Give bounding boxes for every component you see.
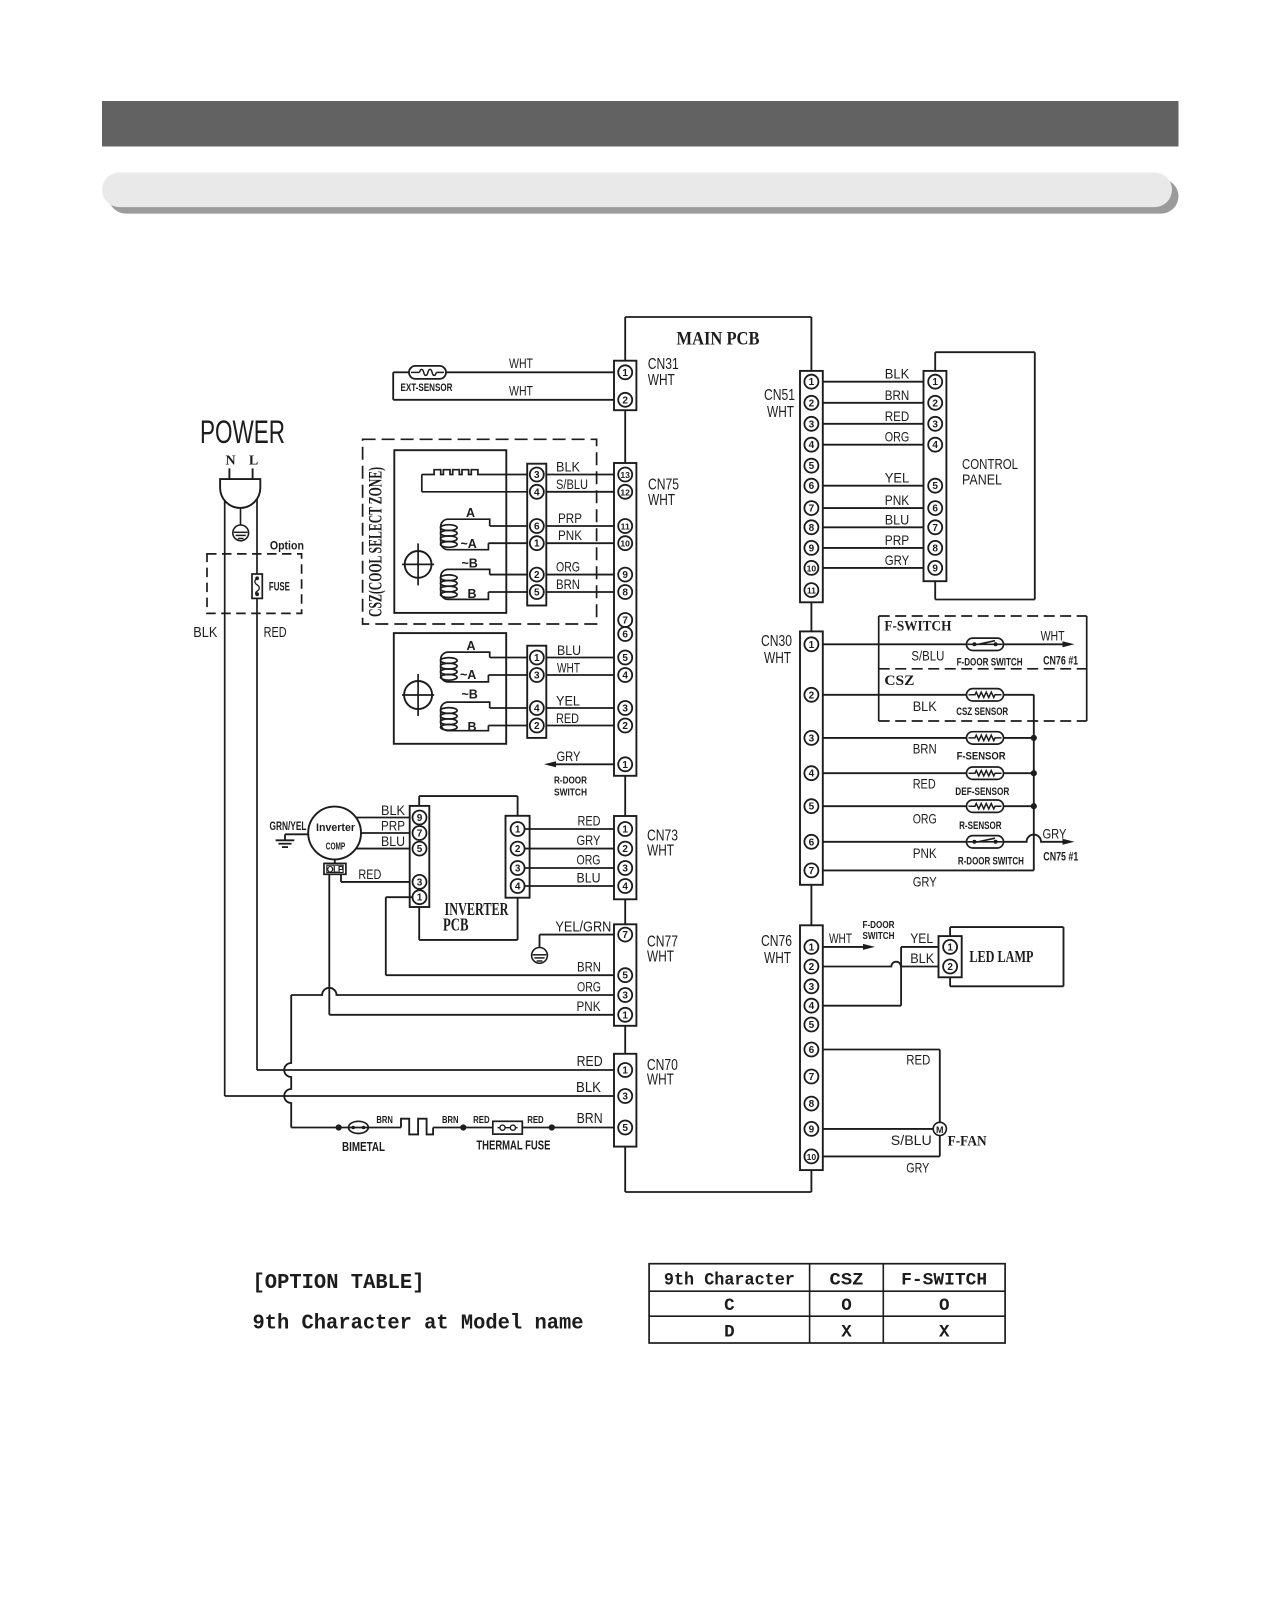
svg-text:A: A <box>466 506 475 520</box>
heater CSZ comb element <box>422 470 537 492</box>
svg-text:YEL: YEL <box>556 692 580 708</box>
svg-text:GRY: GRY <box>906 1160 929 1176</box>
motor winding A CSZ <box>441 519 490 550</box>
label R-DOOR SWITCH sensor <box>958 856 1024 868</box>
switch R-DOOR SWITCH <box>967 836 1004 848</box>
svg-text:S/BLU: S/BLU <box>556 476 588 492</box>
wire RED B to CN75-2 <box>488 725 618 727</box>
svg-text:1: 1 <box>534 539 540 550</box>
wire OLP RED to pin3 <box>341 874 413 882</box>
svg-text:BLK: BLK <box>885 366 910 382</box>
svg-text:7: 7 <box>809 866 815 877</box>
svg-text:9th Character at Model name: 9th Character at Model name <box>253 1312 584 1336</box>
label CN76 WHT <box>761 933 792 967</box>
svg-text:2: 2 <box>622 844 628 855</box>
wire plug ground stem <box>240 508 242 525</box>
connector CN31 <box>614 361 636 411</box>
svg-text:1: 1 <box>809 377 815 388</box>
wire EXT-SENSOR left lead <box>393 372 409 400</box>
svg-text:DEF-SENSOR: DEF-SENSOR <box>955 786 1009 798</box>
svg-text:PNK: PNK <box>913 845 938 861</box>
label CSZ(COOL SELECT ZONE) <box>366 467 387 617</box>
header shadow bar <box>109 179 1179 214</box>
svg-text:WHT: WHT <box>647 949 674 966</box>
svg-text:ORG: ORG <box>577 852 601 868</box>
connector CN70 <box>614 1054 636 1147</box>
svg-text:MAIN PCB: MAIN PCB <box>677 329 760 350</box>
wire RED CN76-6 to fan <box>818 1050 939 1123</box>
svg-text:1: 1 <box>622 760 628 771</box>
label GRY CN30 <box>913 874 938 890</box>
label POWER <box>200 414 285 450</box>
label F-SWITCH <box>884 619 951 635</box>
svg-text:4: 4 <box>534 704 540 715</box>
svg-text:GRY: GRY <box>577 832 602 848</box>
label N <box>225 454 235 469</box>
svg-text:2: 2 <box>622 721 628 732</box>
wire WHT ~A to CN75-4 <box>488 674 618 676</box>
label ~A CSZ <box>461 537 477 551</box>
overload protector OLP <box>324 863 346 874</box>
F-SWITCH CSZ dashed box <box>879 616 1087 721</box>
svg-text:BLU: BLU <box>577 870 601 886</box>
svg-text:GRY: GRY <box>913 874 938 890</box>
connector inverter left mate <box>410 806 430 907</box>
svg-text:WHT: WHT <box>647 843 674 860</box>
svg-text:PCB: PCB <box>443 914 469 934</box>
connector R mate <box>527 646 546 738</box>
svg-text:1: 1 <box>809 640 815 651</box>
svg-text:CN76: CN76 <box>761 933 792 950</box>
label BLK CN30 <box>913 698 938 714</box>
wire ground inverter <box>285 834 309 840</box>
connector CN51 <box>800 371 823 602</box>
wire BLK power vertical <box>224 495 226 1096</box>
svg-text:R-SENSOR: R-SENSOR <box>959 820 1002 832</box>
label BLU CN73 <box>577 870 601 886</box>
label WHT bottom <box>509 383 533 399</box>
junction dot meander right <box>460 1124 466 1130</box>
svg-text:WHT: WHT <box>509 355 533 371</box>
label BRN CN30 <box>913 741 937 757</box>
label R-SENSOR <box>959 820 1002 832</box>
MAIN PCB box left edge <box>624 317 626 1192</box>
svg-text:WHT: WHT <box>764 650 791 667</box>
svg-text:6: 6 <box>809 1045 815 1056</box>
label S/BLU row12 <box>556 476 588 492</box>
wire ORG vertical with hops <box>284 995 291 1128</box>
svg-text:6: 6 <box>932 504 938 515</box>
label CN73 WHT <box>647 828 678 860</box>
wire GRY arrow CN75-1 <box>544 761 618 767</box>
connector CN73 <box>614 816 636 899</box>
wire ORG inv to CN73-3 <box>525 867 619 869</box>
wire WHT CN76-1 arrow <box>818 944 875 950</box>
wire BLK CN30-2 csz sensor <box>818 694 1033 696</box>
svg-text:CN31: CN31 <box>648 356 679 373</box>
svg-text:X: X <box>841 1323 852 1343</box>
svg-text:4: 4 <box>809 1001 815 1012</box>
svg-text:YEL: YEL <box>910 930 933 946</box>
wire RED CN30-4 def-sensor <box>818 772 1033 774</box>
svg-text:BLU: BLU <box>381 833 405 849</box>
svg-text:7: 7 <box>809 1072 815 1083</box>
svg-text:3: 3 <box>809 733 815 744</box>
svg-text:A: A <box>467 639 476 653</box>
wire WHT CN30-1 f-door switch <box>818 641 1074 647</box>
table cell CSZ X <box>841 1323 852 1343</box>
svg-text:5: 5 <box>809 461 815 472</box>
svg-text:4: 4 <box>809 769 815 780</box>
svg-text:BLK: BLK <box>913 698 938 714</box>
svg-text:L: L <box>249 454 258 469</box>
svg-text:CN76 #1: CN76 #1 <box>1043 656 1078 668</box>
label WHT CN76 <box>829 930 852 946</box>
label 9th Character at Model name <box>253 1312 584 1336</box>
svg-text:11: 11 <box>807 586 816 596</box>
svg-text:ORG: ORG <box>577 979 601 995</box>
svg-text:2: 2 <box>932 398 938 409</box>
svg-text:2: 2 <box>947 962 953 973</box>
svg-text:1: 1 <box>932 377 938 388</box>
svg-text:2: 2 <box>534 570 540 581</box>
svg-text:8: 8 <box>809 523 815 534</box>
wire GRY CN76-10 to fan <box>818 1136 939 1157</box>
svg-text:12: 12 <box>620 487 630 497</box>
thermal fuse THERMAL FUSE <box>493 1121 523 1134</box>
label DEF-SENSOR <box>955 786 1009 798</box>
label F-SENSOR <box>957 751 1006 763</box>
bimetal BIMETAL <box>349 1121 369 1133</box>
label CN70 WHT <box>647 1057 678 1089</box>
svg-text:SWITCH: SWITCH <box>554 787 587 799</box>
sensor CSZ SENSOR <box>967 689 1004 701</box>
label RED fuse right <box>527 1115 544 1126</box>
label S/BLU CN30 <box>911 648 944 664</box>
svg-text:[OPTION TABLE]: [OPTION TABLE] <box>253 1271 425 1295</box>
label CN51 WHT <box>764 387 795 421</box>
switch F-DOOR SWITCH <box>967 638 1004 650</box>
svg-text:10: 10 <box>807 563 817 573</box>
svg-text:9: 9 <box>809 543 815 554</box>
wire YEL B~ to CN75-3 <box>490 707 619 709</box>
ground CN77 earth symbol <box>532 948 548 964</box>
label ORG CN30 <box>913 811 937 827</box>
svg-text:~B: ~B <box>462 688 478 702</box>
label A CSZ <box>466 506 475 520</box>
motor winding B R <box>441 702 490 731</box>
svg-text:Inverter: Inverter <box>316 822 356 834</box>
svg-text:3: 3 <box>534 671 540 682</box>
svg-text:~A: ~A <box>461 537 477 551</box>
wire BLU inv to CN73-4 <box>525 885 619 887</box>
svg-text:6: 6 <box>622 630 628 641</box>
R damper inner box <box>394 633 506 744</box>
label ~A R <box>460 668 476 682</box>
label WHT row4 <box>557 659 580 675</box>
wire sensor GRY bus <box>1033 695 1035 871</box>
label GRY fan <box>906 1160 929 1176</box>
svg-text:3: 3 <box>809 419 815 430</box>
sensor EXT-SENSOR <box>409 366 446 379</box>
svg-text:3: 3 <box>622 704 628 715</box>
svg-text:GRY: GRY <box>1043 826 1068 842</box>
label WHT top <box>509 355 533 371</box>
svg-text:1: 1 <box>622 1010 628 1021</box>
label ORG row9 <box>556 559 580 575</box>
label ~B R <box>462 688 478 702</box>
label INVERTER PCB <box>443 899 509 934</box>
label THERMAL FUSE <box>476 1138 550 1153</box>
svg-text:2: 2 <box>534 721 540 732</box>
table header F-SWITCH <box>901 1271 987 1291</box>
wire RED to CN70-1 <box>257 1069 618 1071</box>
label RED fan <box>906 1052 930 1068</box>
svg-text:5: 5 <box>534 588 540 599</box>
svg-text:1: 1 <box>947 942 953 953</box>
label MAIN PCB <box>677 329 760 350</box>
svg-text:7: 7 <box>417 829 423 840</box>
wire GRY CN30-7 return <box>818 869 1033 871</box>
label CN77 WHT <box>647 934 678 966</box>
label RED OLP <box>358 866 381 882</box>
svg-text:1: 1 <box>515 825 521 836</box>
svg-text:3: 3 <box>515 864 521 875</box>
svg-text:RED: RED <box>556 710 579 726</box>
svg-text:7: 7 <box>932 523 938 534</box>
svg-text:8: 8 <box>809 1099 815 1110</box>
motor circle CSZ damper <box>402 543 434 585</box>
svg-text:2: 2 <box>622 395 628 406</box>
svg-text:YEL: YEL <box>885 470 910 486</box>
header dark bar <box>102 101 1179 147</box>
svg-text:PRP: PRP <box>558 510 582 526</box>
motor winding A R <box>441 652 490 682</box>
label A R <box>467 639 476 653</box>
labels CN51 wire colors <box>885 366 910 568</box>
MAIN PCB box top/bottom/right edge <box>625 317 811 1192</box>
svg-text:3: 3 <box>534 470 540 481</box>
svg-text:1: 1 <box>622 368 628 379</box>
svg-text:S/BLU: S/BLU <box>891 1132 932 1148</box>
label F-DOOR SWITCH <box>957 657 1023 669</box>
svg-text:F-SENSOR: F-SENSOR <box>957 751 1006 763</box>
wire BLK to CN70-3 <box>225 1095 619 1097</box>
svg-text:5: 5 <box>622 653 628 664</box>
CSZ inner box <box>394 450 506 613</box>
motor circle R damper <box>402 674 434 716</box>
svg-text:C: C <box>724 1296 735 1316</box>
svg-text:7: 7 <box>622 616 628 627</box>
label RED CN70 <box>577 1054 603 1070</box>
svg-text:WHT: WHT <box>509 383 533 399</box>
label BLK row13 <box>556 459 581 475</box>
svg-text:5: 5 <box>417 844 423 855</box>
wire OLP down to PNK row <box>328 874 330 1015</box>
svg-text:BRN: BRN <box>577 1111 603 1127</box>
svg-text:F-SWITCH: F-SWITCH <box>884 619 951 635</box>
svg-text:4: 4 <box>515 882 521 893</box>
svg-text:RED: RED <box>577 1054 603 1070</box>
svg-text:F-SWITCH: F-SWITCH <box>901 1271 987 1291</box>
label YEL row3 <box>556 692 580 708</box>
wire comp to OLP <box>334 859 336 863</box>
svg-text:8: 8 <box>622 588 628 599</box>
label BLK LED <box>910 950 935 966</box>
svg-text:3: 3 <box>622 864 628 875</box>
label B CSZ <box>468 587 477 601</box>
INVERTER PCB outline <box>419 796 517 940</box>
svg-text:GRY: GRY <box>557 748 582 764</box>
label BLK CN70 <box>576 1080 601 1096</box>
table header CSZ <box>830 1271 864 1291</box>
label BRN row8 <box>556 576 580 592</box>
svg-text:4: 4 <box>534 487 540 498</box>
label RED CN30 <box>913 776 936 792</box>
svg-text:10: 10 <box>807 1152 817 1162</box>
junction dot bus r-sensor <box>1031 803 1037 809</box>
svg-text:RED: RED <box>885 408 910 424</box>
svg-text:5: 5 <box>932 481 938 492</box>
label BLK inverter <box>381 802 406 818</box>
svg-text:~B: ~B <box>462 557 478 571</box>
label ~B CSZ <box>462 557 478 571</box>
svg-text:5: 5 <box>622 971 628 982</box>
wire BRN B to CN75-8 <box>488 591 618 593</box>
label FUSE <box>269 582 290 594</box>
table header 9th Character <box>664 1271 795 1291</box>
svg-text:6: 6 <box>534 522 540 533</box>
svg-text:X: X <box>939 1323 950 1343</box>
svg-text:3: 3 <box>417 877 423 888</box>
ground plug earth symbol <box>233 525 249 541</box>
connector CSZ mate <box>527 464 546 606</box>
wire YEL/GRN CN77-7 <box>540 935 619 948</box>
wire BRN meander to thermal fuse <box>433 1127 494 1129</box>
svg-text:ORG: ORG <box>913 811 937 827</box>
svg-text:F-DOOR SWITCH: F-DOOR SWITCH <box>957 657 1023 669</box>
svg-text:6: 6 <box>809 481 815 492</box>
svg-text:YEL/GRN: YEL/GRN <box>555 920 611 936</box>
wires CN51 to control panel <box>811 382 935 568</box>
table cell C <box>724 1296 735 1316</box>
wire PRP comp to pin7 <box>358 832 413 834</box>
svg-text:OLP: OLP <box>327 865 344 875</box>
label GRY r-door <box>1043 826 1068 842</box>
svg-text:GRN/YEL: GRN/YEL <box>270 821 307 833</box>
svg-text:BRN: BRN <box>885 387 910 403</box>
svg-text:13: 13 <box>620 470 630 480</box>
svg-text:COMP: COMP <box>326 841 346 853</box>
label RED row2 <box>556 710 579 726</box>
svg-text:CN75 #1: CN75 #1 <box>1043 852 1078 864</box>
wire GRY inv to CN73-2 <box>525 848 619 850</box>
svg-text:CSZ: CSZ <box>830 1271 864 1291</box>
svg-text:3: 3 <box>622 1092 628 1103</box>
svg-text:PNK: PNK <box>885 492 910 508</box>
svg-text:POWER: POWER <box>200 414 285 450</box>
label RED CN73 <box>578 813 601 829</box>
label CN30 WHT <box>761 633 792 667</box>
svg-text:2: 2 <box>809 690 815 701</box>
ground inverter earth <box>276 840 295 847</box>
connector control panel mate <box>924 371 947 581</box>
label CSZ SENSOR <box>956 706 1008 718</box>
svg-text:2: 2 <box>515 844 521 855</box>
svg-text:10: 10 <box>620 539 630 549</box>
header light bar <box>102 173 1172 208</box>
label BRN CN77 <box>577 959 601 975</box>
wire plug prong N <box>228 468 230 480</box>
svg-text:2: 2 <box>809 398 815 409</box>
label RED fuse left <box>473 1115 490 1126</box>
wire plug prong L <box>252 468 254 480</box>
motor winding B CSZ <box>441 569 490 599</box>
svg-text:N: N <box>225 454 235 469</box>
label YEL/GRN <box>555 920 611 936</box>
svg-text:4: 4 <box>622 882 628 893</box>
svg-text:Option: Option <box>270 541 304 553</box>
svg-text:1: 1 <box>622 825 628 836</box>
label B R <box>468 720 477 734</box>
LED LAMP box <box>950 927 1063 986</box>
svg-text:11: 11 <box>621 522 630 532</box>
svg-text:B: B <box>468 720 477 734</box>
wire PNK ~A to CN75-10 <box>488 542 618 544</box>
svg-text:F-FAN: F-FAN <box>948 1134 987 1150</box>
connector LED mate <box>939 936 962 977</box>
svg-text:PANEL: PANEL <box>962 472 1002 489</box>
wire PNK CN30-6 r-door switch <box>818 835 1074 845</box>
label CN75 WHT <box>648 477 679 510</box>
junction dot bimetal left <box>336 1124 342 1130</box>
table cell CSZ O <box>841 1296 852 1316</box>
label CONTROL PANEL <box>962 456 1018 489</box>
svg-text:PRP: PRP <box>381 818 405 834</box>
svg-text:BLU: BLU <box>885 511 910 527</box>
label PNK CN77 <box>577 998 602 1014</box>
connector CN30 <box>800 631 823 884</box>
svg-text:BRN: BRN <box>556 576 580 592</box>
CSZ cool select zone dashed box <box>363 439 597 624</box>
svg-text:THERMAL FUSE: THERMAL FUSE <box>476 1138 550 1153</box>
svg-text:3: 3 <box>622 991 628 1002</box>
label Option <box>270 541 304 553</box>
svg-text:5: 5 <box>809 802 815 813</box>
label EXT-SENSOR <box>401 382 453 394</box>
connector CN77 <box>614 924 636 1026</box>
svg-text:WHT: WHT <box>764 950 791 967</box>
sensor F-SENSOR <box>967 732 1004 744</box>
svg-text:9: 9 <box>622 570 628 581</box>
svg-text:BLK: BLK <box>910 950 935 966</box>
wire BLK heater to CN75-13 <box>537 474 618 476</box>
svg-text:RED: RED <box>913 776 936 792</box>
label F-FAN <box>948 1134 987 1150</box>
svg-text:PRP: PRP <box>885 532 910 548</box>
defrost heater meander <box>401 1119 433 1135</box>
wire S/BLU CN76-9 to fan <box>818 1128 933 1130</box>
wire WHT EXT-SENSOR to CN31-2 <box>393 399 618 401</box>
wire BRN fuse to CN70-5 <box>522 1127 618 1129</box>
svg-text:PNK: PNK <box>558 527 583 543</box>
wire ORG B~ to CN75-9 <box>490 574 619 576</box>
label ORG CN73 <box>577 852 601 868</box>
svg-text:GRY: GRY <box>885 552 910 568</box>
table cell F-SWITCH X <box>939 1323 950 1343</box>
label BLK power <box>193 625 217 641</box>
fuse FUSE <box>252 574 262 598</box>
